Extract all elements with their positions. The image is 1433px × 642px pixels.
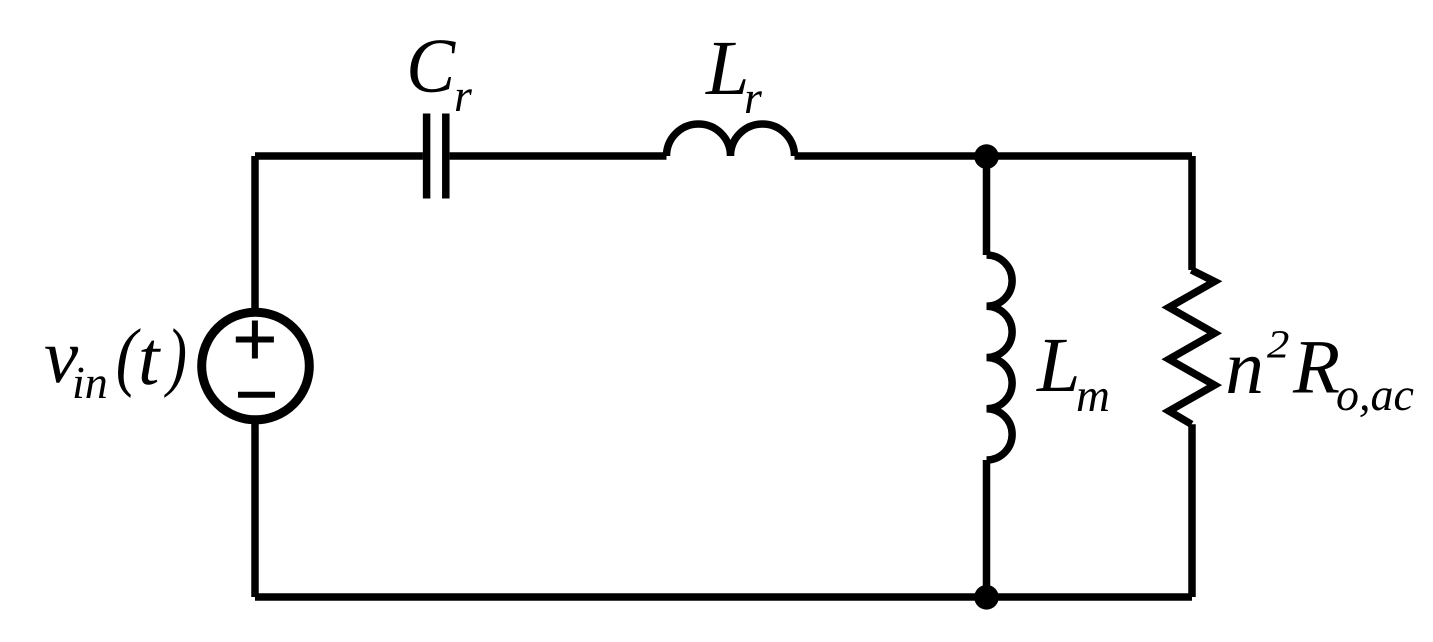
label vin close paren ")" [164, 328, 185, 398]
minus sign of source [238, 392, 275, 398]
label vin main "v" [45, 347, 78, 383]
capacitor Cr right plate [442, 114, 450, 199]
wire middle vertical lower (Lm to node B) [983, 460, 991, 597]
wire bottom horizontal [255, 593, 1192, 601]
label Lm subscript "m" [1078, 389, 1108, 411]
wire top-left horizontal (source to C plate) [255, 152, 423, 160]
label vin subscript "in" [75, 368, 106, 399]
voltage source V1 circle [202, 312, 310, 420]
inductor Lm (four humps) [987, 255, 1013, 460]
label vin open paren "(" [118, 328, 141, 398]
label vin t "t" [141, 341, 161, 385]
label Cr main "C" [410, 40, 455, 92]
wire middle vertical upper (node A to Lm) [983, 156, 991, 255]
label Lm main "L" [1036, 340, 1077, 391]
label R "R" [1293, 342, 1339, 392]
label n "n" [1228, 357, 1261, 393]
wire left vertical upper (source to top corner) [251, 156, 259, 312]
node A (top junction dot) [974, 144, 999, 169]
wire left vertical lower (bottom corner to source) [251, 420, 259, 597]
label Lr main "L" [705, 43, 746, 94]
capacitor Cr left plate [423, 114, 431, 199]
resistor n2Ro,ac zigzag [1169, 270, 1215, 424]
wire top-right horizontal (Lr to node A and right corner) [795, 152, 1193, 160]
wire right vertical lower (resistor to bottom corner) [1188, 424, 1196, 597]
inductor Lr (two humps) [667, 124, 795, 156]
label R subscript o,ac "o,ac" [1337, 388, 1413, 417]
wire top middle (C to Lr) [450, 152, 667, 160]
label Cr subscript "r" [456, 89, 472, 111]
label Lr subscript "r" [746, 91, 762, 113]
label exponent 2 "2" [1267, 331, 1288, 358]
plus sign of source [236, 321, 274, 359]
node B (bottom junction dot) [974, 585, 999, 610]
wire right vertical upper (corner to resistor) [1188, 156, 1196, 270]
